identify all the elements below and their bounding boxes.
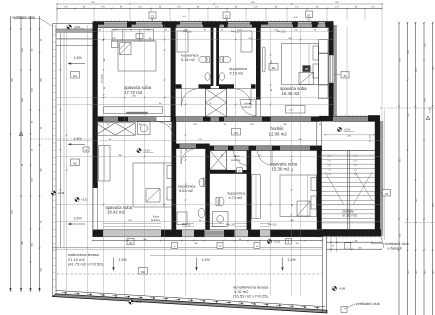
svg-text:M1: M1 — [73, 74, 77, 78]
svg-text:90: 90 — [314, 30, 316, 32]
svg-text:P= 0.30: P= 0.30 — [268, 223, 277, 226]
svg-text:vertikalni oluk: vertikalni oluk — [356, 301, 380, 306]
svg-text:17.72 m2: 17.72 m2 — [124, 90, 143, 95]
box M1 hodnik — [232, 129, 241, 136]
svg-text:+3.22: +3.22 — [274, 241, 281, 244]
svg-text:+3.24: +3.24 — [344, 129, 351, 132]
svg-text:17,5: 17,5 — [354, 161, 357, 163]
radiator room C left — [262, 47, 265, 72]
elevation marker bottom center — [129, 300, 133, 304]
svg-text:+3.22: +3.22 — [81, 199, 88, 202]
box Z1 right — [383, 190, 391, 197]
svg-text:160: 160 — [113, 30, 116, 32]
bathroom L fixtures — [199, 56, 207, 62]
elevation marker +3.22 below wall — [267, 239, 271, 243]
wardrobe room G — [252, 175, 260, 219]
svg-text:90: 90 — [130, 30, 132, 32]
svg-text:90: 90 — [165, 30, 167, 32]
svg-text:P= 0.30: P= 0.30 — [277, 31, 286, 34]
left datum triangle — [19, 132, 23, 136]
svg-text:360: 360 — [104, 58, 106, 61]
svg-text:+3.48: +3.48 — [292, 17, 298, 19]
elevation marker left terrace b — [75, 197, 79, 201]
svg-text:+3.48: +3.48 — [74, 26, 81, 29]
svg-text:45: 45 — [271, 89, 273, 91]
left edge cross ticks — [53, 34, 57, 36]
svg-text:185: 185 — [193, 124, 196, 126]
left exterior wall of house — [93, 22, 98, 188]
svg-text:P= 0.30: P= 0.30 — [101, 74, 104, 83]
dim lines below stair block — [327, 241, 382, 243]
terrace outer edge left — [52, 24, 54, 297]
svg-text:M2: M2 — [73, 161, 77, 165]
dashed terrace line — [57, 273, 322, 275]
kup473 right wall — [247, 151, 252, 230]
hodnik top wall (mid horizontal) — [98, 117, 319, 122]
kup663 fixtures — [199, 178, 205, 186]
kup473 top wall below shaft — [210, 170, 247, 174]
svg-text:jedinica: jedinica — [242, 105, 252, 109]
stair treads — [322, 154, 375, 156]
square column with circle — [138, 122, 150, 135]
svg-text:P= 0.30: P= 0.30 — [182, 223, 191, 226]
svg-text:17,5: 17,5 — [354, 156, 357, 158]
top exterior wall — [94, 22, 334, 25]
wardrobe room D — [99, 146, 110, 182]
stair block top wall — [319, 116, 380, 121]
lower shaft X — [210, 151, 227, 171]
bathroom R fixtures — [222, 56, 230, 62]
terrace slanted bottom edge — [53, 294, 328, 313]
partition kup663/kup473 — [205, 149, 210, 230]
svg-text:17,5: 17,5 — [328, 161, 331, 163]
svg-text:90: 90 — [104, 87, 106, 89]
night stand room A — [112, 41, 119, 48]
door room C — [240, 100, 256, 116]
door arc hodnik to room D — [157, 122, 174, 139]
dresser room A bottom — [104, 107, 163, 113]
left dimension chains — [10, 16, 12, 291]
hodnik bottom wall / lower rooms top wall — [172, 144, 210, 149]
bed room C — [282, 44, 319, 85]
svg-text:1,5%: 1,5% — [288, 258, 297, 262]
svg-text:+3.48: +3.48 — [135, 301, 142, 304]
svg-text:90: 90 — [107, 124, 109, 126]
stair run diagonals — [353, 172, 372, 205]
svg-text:klima: klima — [153, 215, 160, 219]
svg-text:90: 90 — [292, 204, 294, 206]
svg-text:17,5: 17,5 — [328, 174, 331, 176]
svg-text:8.16 m2: 8.16 m2 — [343, 213, 358, 218]
elevation marker bottom right — [332, 286, 336, 290]
svg-text:360: 360 — [283, 124, 286, 126]
svg-text:17,5: 17,5 — [328, 156, 331, 158]
terrace parapet top-left — [56, 29, 94, 32]
svg-text:30: 30 — [332, 246, 334, 248]
svg-text:360: 360 — [138, 124, 141, 126]
svg-text:1,5%: 1,5% — [74, 217, 83, 221]
svg-text:1,5%: 1,5% — [119, 258, 128, 262]
box M2 left — [71, 159, 80, 166]
svg-text:20: 20 — [169, 124, 171, 126]
stair center stringer — [347, 150, 349, 229]
bottom dim line below wall — [93, 240, 323, 242]
kup473 fixtures — [218, 197, 224, 205]
interior dim ticks rows — [103, 97, 105, 99]
stair landing line — [322, 149, 375, 151]
svg-text:spavaća soba: spavaća soba — [271, 161, 298, 166]
svg-text:90: 90 — [99, 30, 101, 32]
boxes below bottom wall — [172, 242, 178, 248]
svg-text:17,5: 17,5 — [328, 170, 331, 172]
svg-text:5.15 m2: 5.15 m2 — [230, 72, 244, 76]
right dimension chains — [398, 22, 400, 315]
bathroom bottom walls — [176, 84, 182, 88]
svg-text:+3.48: +3.48 — [339, 288, 346, 291]
svg-text:45: 45 — [204, 30, 206, 32]
box M3 terrace — [139, 268, 148, 275]
box 7 below stair — [345, 243, 351, 250]
hodnik bench — [286, 106, 305, 114]
stair block right wall — [375, 116, 380, 236]
svg-text:90: 90 — [257, 30, 259, 32]
elevation marker +3.24 room D — [137, 148, 141, 152]
svg-text:360: 360 — [292, 168, 294, 171]
svg-text:12.06 m2: 12.06 m2 — [269, 132, 288, 137]
partition bedroomA/bathrooms — [171, 27, 176, 87]
box 60 kup473 — [237, 168, 243, 173]
right exterior wall upper — [329, 22, 334, 117]
room C left wall — [256, 27, 261, 87]
wardrobe room A top — [112, 30, 154, 41]
svg-text:415: 415 — [271, 60, 273, 63]
svg-text:kupaonica: kupaonica — [228, 192, 246, 196]
svg-text:(16,53 m2 x f=0.25): (16,53 m2 x f=0.25) — [233, 294, 268, 299]
box b6 — [83, 147, 89, 152]
box M1 room C — [269, 64, 278, 71]
drainage arrows along slanted edge — [62, 292, 67, 294]
interior thin dimension lines — [57, 30, 333, 32]
boxes top chain — [149, 12, 156, 19]
svg-text:5=608: 5=608 — [429, 106, 431, 113]
kup663 door — [181, 149, 197, 165]
svg-text:kupaonica: kupaonica — [230, 67, 248, 71]
kup473 door — [234, 151, 249, 166]
svg-text:15.30 m2: 15.30 m2 — [272, 167, 291, 172]
svg-text:S1: S1 — [307, 13, 311, 17]
extra tick clusters on interior lines — [103, 39, 105, 41]
top dimension chain — [57, 8, 382, 10]
window sill lines bottom openings — [103, 223, 161, 225]
svg-text:P= 0.30: P= 0.30 — [226, 223, 235, 226]
svg-text:185: 185 — [250, 124, 253, 126]
svg-text:P= 0.30: P= 0.30 — [183, 31, 192, 34]
bed room A — [118, 41, 156, 71]
svg-text:8(8): 8(8) — [129, 242, 133, 244]
svg-text:1,5%: 1,5% — [202, 258, 211, 262]
bathroom door R — [234, 89, 251, 106]
svg-text:hodnik: hodnik — [271, 126, 285, 131]
svg-text:17,5: 17,5 — [354, 165, 357, 167]
elevation marker +3.48 top left — [67, 25, 71, 29]
svg-text:45: 45 — [224, 124, 226, 126]
svg-text:17,5: 17,5 — [328, 165, 331, 167]
terrace roof edge top — [53, 23, 95, 25]
night stands room C — [319, 40, 329, 54]
svg-text:1,5%: 1,5% — [74, 56, 83, 60]
elevation marker +3.24 stairs — [337, 127, 341, 131]
box M6 dark room C — [303, 65, 311, 72]
svg-text:90: 90 — [186, 149, 188, 151]
bottom exterior wall with piers — [93, 230, 323, 237]
svg-text:17,5: 17,5 — [354, 174, 357, 176]
terrace right edge — [322, 237, 324, 313]
closet X band room D top — [96, 123, 136, 135]
svg-text:160: 160 — [294, 30, 297, 32]
svg-text:M1: M1 — [272, 66, 276, 70]
top chain extension lines — [56, 9, 58, 21]
svg-text:+3.24: +3.24 — [143, 150, 150, 153]
svg-text:18.42 m2: 18.42 m2 — [107, 210, 126, 215]
svg-text:45: 45 — [327, 30, 329, 32]
central shaft X below bathrooms — [206, 89, 227, 117]
terrace step lines — [53, 246, 323, 248]
svg-text:(41.73 m2 x f=0.50): (41.73 m2 x f=0.50) — [68, 262, 103, 267]
svg-text:175: 175 — [186, 183, 188, 186]
svg-text:45: 45 — [221, 30, 223, 32]
box M1 left — [71, 72, 80, 79]
central shaft walls bathrooms — [211, 27, 214, 86]
svg-text:M3: M3 — [141, 270, 145, 274]
bed room G — [280, 175, 317, 217]
svg-text:M1: M1 — [234, 131, 238, 135]
elevation marker left terrace a — [51, 191, 55, 195]
svg-text:u fasadi: u fasadi — [388, 245, 402, 250]
partition bedroomD/kup663 — [172, 122, 177, 207]
svg-text:90: 90 — [319, 124, 321, 126]
svg-text:5.18 m2: 5.18 m2 — [181, 58, 195, 62]
svg-text:175: 175 — [146, 30, 149, 32]
svg-text:P= 0.30: P= 0.30 — [231, 31, 240, 34]
bed room D — [133, 163, 173, 207]
svg-text:kupaonica: kupaonica — [181, 53, 199, 57]
svg-text:6.63 m2: 6.63 m2 — [179, 189, 193, 193]
stair left wall — [317, 150, 322, 229]
stair block bottom wall — [317, 229, 381, 236]
svg-text:17,5: 17,5 — [354, 170, 357, 172]
svg-text:16.46 m2: 16.46 m2 — [282, 91, 301, 96]
door room G — [258, 151, 273, 166]
svg-text:+3.48: +3.48 — [58, 192, 65, 195]
box Z1 stair side — [341, 72, 349, 79]
bathroom door L — [182, 89, 199, 106]
